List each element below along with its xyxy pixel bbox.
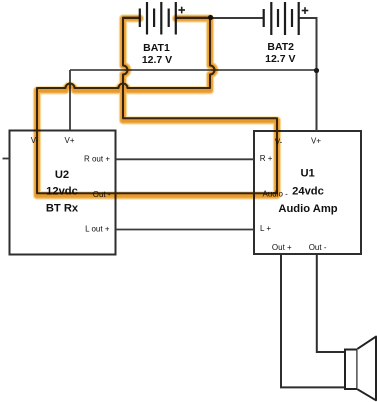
- wire BAT1+ to BAT2-: [176, 17, 264, 19]
- svg-text:BAT2: BAT2: [267, 41, 294, 53]
- wire stub left of U2: [3, 158, 10, 160]
- box U2 BT Rx: [10, 131, 116, 255]
- box U1 Audio Amp: [254, 131, 361, 254]
- svg-text:BT Rx: BT Rx: [46, 203, 79, 215]
- svg-text:L out +: L out +: [85, 224, 110, 233]
- battery BAT1: [140, 2, 176, 35]
- BAT2 plus sign: [302, 7, 309, 14]
- wire BAT2+ down to U1 V+: [299, 18, 317, 131]
- speaker: [345, 350, 357, 390]
- svg-text:V+: V+: [64, 136, 74, 145]
- svg-text:12.7 V: 12.7 V: [265, 53, 295, 65]
- battery BAT2: [264, 2, 299, 35]
- svg-text:R out +: R out +: [84, 154, 110, 163]
- svg-text:24vdc: 24vdc: [292, 186, 324, 198]
- wire R out+ to R+: [116, 158, 255, 160]
- svg-text:V+: V+: [311, 136, 321, 145]
- junction dot BAT2+ rail: [314, 68, 319, 73]
- svg-text:Audio Amp: Audio Amp: [278, 203, 337, 215]
- svg-text:12.7 V: 12.7 V: [142, 54, 172, 66]
- svg-text:Out -: Out -: [309, 243, 327, 252]
- BAT1 plus sign: [178, 7, 185, 14]
- svg-text:R +: R +: [260, 154, 273, 163]
- svg-text:U2: U2: [55, 169, 69, 181]
- orange highlight path: [37, 18, 277, 195]
- svg-text:U1: U1: [300, 168, 314, 180]
- wire highlighted route (black under orange): [37, 18, 277, 194]
- wire L out+ to L+: [116, 229, 255, 231]
- svg-text:BAT1: BAT1: [143, 42, 170, 54]
- wire Out- to speaker top: [317, 254, 345, 352]
- wire Out+ to speaker bottom: [281, 254, 345, 387]
- svg-text:Out +: Out +: [272, 243, 292, 252]
- svg-text:L +: L +: [260, 224, 271, 233]
- junction dot BAT1+/BAT2- branch: [208, 15, 213, 20]
- wire U2 V+ drop: [69, 70, 71, 131]
- wire BAT1 negative terminal: [123, 17, 140, 19]
- wire horizontal rail y=70: [70, 69, 317, 71]
